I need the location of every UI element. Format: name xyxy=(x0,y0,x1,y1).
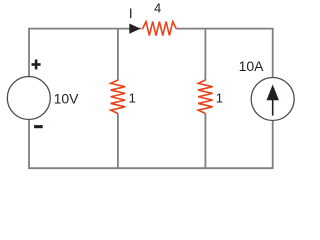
wire top-right segment xyxy=(176,28,273,30)
svg-text:I: I xyxy=(129,5,133,21)
wire middle branch 2 lower xyxy=(204,113,206,168)
minus sign xyxy=(34,125,43,128)
value label 1 (left) xyxy=(129,91,136,106)
svg-text:1: 1 xyxy=(129,91,136,106)
svg-text:1: 1 xyxy=(216,91,223,106)
wire right branch lower xyxy=(272,121,274,169)
current source I1 circle xyxy=(251,78,294,121)
resistor R3 value 1 (right vertical zigzag) xyxy=(198,80,212,114)
wire middle branch 1 lower xyxy=(117,113,119,168)
wire middle branch 2 upper xyxy=(204,29,206,80)
wire left branch lower xyxy=(28,120,30,169)
svg-text:4: 4 xyxy=(154,0,161,15)
label 10V xyxy=(54,91,80,107)
resistor R2 value 1 (left vertical zigzag) xyxy=(111,80,125,114)
wire top-left segment xyxy=(29,28,141,30)
plus sign xyxy=(32,60,41,70)
label 10A xyxy=(239,58,265,74)
value label 4 xyxy=(154,0,161,15)
value label 1 (right) xyxy=(216,91,223,106)
current source arrow xyxy=(267,85,279,116)
wire right branch upper xyxy=(272,28,274,78)
current arrow I on top wire xyxy=(129,24,140,34)
wire middle branch 1 upper xyxy=(117,29,119,80)
svg-text:10A: 10A xyxy=(239,58,265,74)
label I xyxy=(129,5,133,21)
wire left branch upper xyxy=(28,28,30,77)
svg-text:10V: 10V xyxy=(54,91,80,107)
wire bottom xyxy=(29,167,273,169)
voltage source V1 circle xyxy=(7,77,50,120)
resistor R1 value 4 (horizontal zigzag) xyxy=(142,22,177,36)
